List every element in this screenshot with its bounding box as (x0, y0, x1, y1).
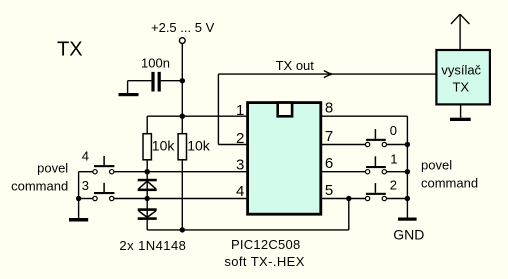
svg-text:0: 0 (390, 123, 397, 138)
svg-text:PIC12C508: PIC12C508 (231, 237, 300, 252)
svg-text:TX out: TX out (276, 58, 315, 73)
svg-text:TX: TX (452, 79, 469, 94)
svg-text:+2.5 ... 5 V: +2.5 ... 5 V (151, 20, 215, 35)
svg-text:TX: TX (57, 39, 83, 61)
svg-text:2: 2 (390, 178, 397, 193)
svg-text:command: command (421, 175, 478, 190)
svg-text:6: 6 (325, 155, 333, 172)
svg-text:3: 3 (82, 178, 89, 193)
svg-text:100n: 100n (141, 55, 170, 70)
svg-text:GND: GND (393, 227, 424, 243)
svg-text:8: 8 (325, 99, 333, 116)
svg-text:vysílač: vysílač (441, 62, 481, 77)
svg-text:1: 1 (236, 102, 244, 119)
svg-text:command: command (11, 179, 68, 194)
svg-text:4: 4 (82, 148, 89, 163)
svg-text:3: 3 (236, 157, 244, 174)
svg-text:10k: 10k (187, 138, 211, 154)
svg-text:povel: povel (37, 161, 68, 176)
svg-text:2: 2 (236, 130, 244, 147)
svg-text:7: 7 (325, 128, 333, 145)
svg-text:5: 5 (325, 182, 333, 199)
svg-text:4: 4 (236, 183, 244, 200)
svg-text:soft TX-.HEX: soft TX-.HEX (224, 254, 304, 269)
svg-text:1: 1 (390, 151, 397, 166)
svg-text:2x 1N4148: 2x 1N4148 (119, 238, 186, 253)
svg-text:povel: povel (421, 157, 452, 172)
svg-text:10k: 10k (152, 138, 176, 154)
